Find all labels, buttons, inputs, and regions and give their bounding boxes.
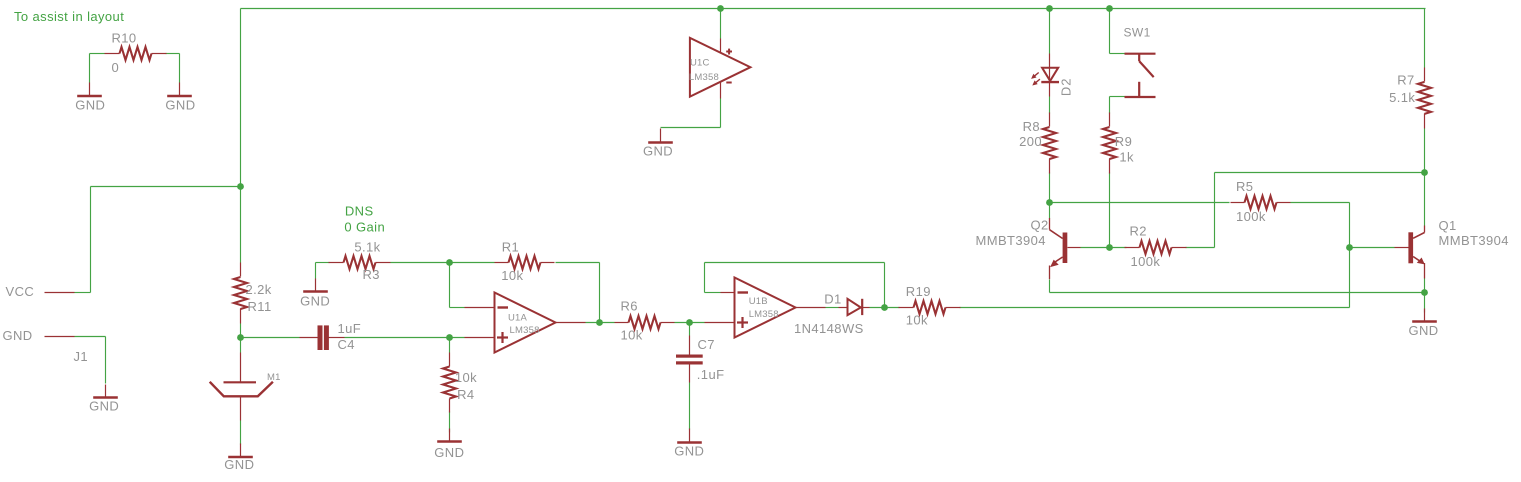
svg-text:GND: GND [165, 98, 195, 113]
svg-text:10k: 10k [906, 313, 928, 328]
svg-text:C4: C4 [338, 337, 355, 352]
svg-text:LM358: LM358 [510, 325, 540, 336]
svg-text:U1C: U1C [690, 57, 710, 68]
svg-text:J1: J1 [74, 349, 89, 364]
svg-text:.1uF: .1uF [697, 367, 725, 382]
svg-text:2.2k: 2.2k [246, 282, 272, 297]
svg-text:VCC: VCC [6, 284, 35, 299]
svg-text:R11: R11 [248, 299, 272, 314]
svg-text:0 Gain: 0 Gain [344, 220, 385, 235]
svg-text:1uF: 1uF [338, 321, 362, 336]
svg-text:10k: 10k [455, 370, 477, 385]
svg-text:100k: 100k [1131, 254, 1161, 269]
svg-text:R1: R1 [502, 239, 519, 254]
svg-text:LM358: LM358 [689, 72, 719, 83]
svg-text:GND: GND [3, 328, 33, 343]
svg-text:GND: GND [643, 143, 673, 158]
svg-text:GND: GND [224, 457, 254, 472]
svg-text:U1A: U1A [508, 312, 528, 323]
svg-text:Q2: Q2 [1031, 218, 1049, 233]
svg-text:1k: 1k [1119, 150, 1134, 165]
svg-text:10k: 10k [621, 327, 643, 342]
svg-text:5.1k: 5.1k [354, 239, 380, 254]
svg-text:LM358: LM358 [749, 309, 779, 320]
svg-text:GND: GND [75, 98, 105, 113]
svg-text:GND: GND [1409, 323, 1439, 338]
svg-text:R9: R9 [1115, 134, 1132, 149]
svg-text:D1: D1 [824, 291, 841, 306]
svg-text:1N4148WS: 1N4148WS [794, 321, 864, 336]
svg-text:U1B: U1B [749, 296, 768, 307]
svg-text:GND: GND [434, 445, 464, 460]
svg-text:D2: D2 [1059, 77, 1074, 96]
svg-text:100k: 100k [1236, 209, 1266, 224]
svg-text:Q1: Q1 [1439, 218, 1457, 233]
svg-text:MMBT3904: MMBT3904 [1439, 233, 1509, 248]
svg-text:R10: R10 [112, 31, 137, 46]
svg-text:R3: R3 [363, 267, 380, 282]
svg-text:DNS: DNS [345, 203, 374, 218]
svg-text:R7: R7 [1397, 73, 1414, 88]
svg-text:200: 200 [1019, 134, 1042, 149]
svg-text:SW1: SW1 [1124, 25, 1151, 39]
svg-text:R6: R6 [621, 298, 638, 313]
svg-text:R4: R4 [457, 387, 474, 402]
svg-text:C7: C7 [698, 337, 715, 352]
svg-text:To assist in layout: To assist in layout [14, 9, 124, 24]
svg-text:5.1k: 5.1k [1389, 90, 1415, 105]
svg-text:GND: GND [674, 444, 704, 459]
svg-text:R8: R8 [1023, 119, 1040, 134]
svg-text:GND: GND [300, 294, 330, 309]
svg-text:R19: R19 [906, 284, 931, 299]
svg-text:M1: M1 [267, 372, 281, 383]
svg-text:MMBT3904: MMBT3904 [976, 233, 1046, 248]
svg-text:0: 0 [112, 60, 120, 75]
svg-text:GND: GND [89, 398, 119, 413]
svg-text:10k: 10k [501, 268, 523, 283]
svg-text:R2: R2 [1130, 223, 1147, 238]
svg-text:R5: R5 [1236, 179, 1253, 194]
